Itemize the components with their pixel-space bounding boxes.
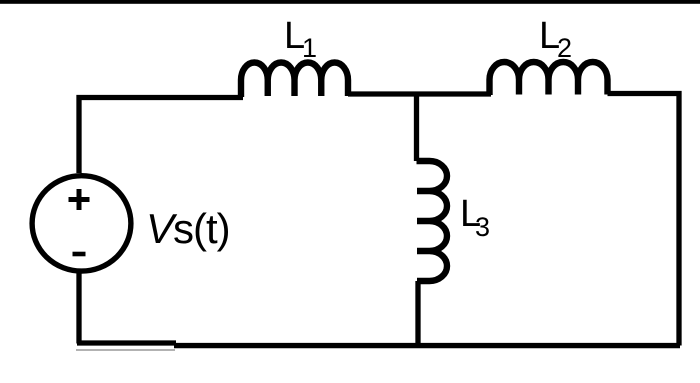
svg-text:2: 2 [557, 33, 572, 63]
svg-text:Vs(t): Vs(t) [146, 205, 230, 252]
svg-text:1: 1 [302, 33, 317, 63]
svg-text:3: 3 [475, 212, 490, 242]
